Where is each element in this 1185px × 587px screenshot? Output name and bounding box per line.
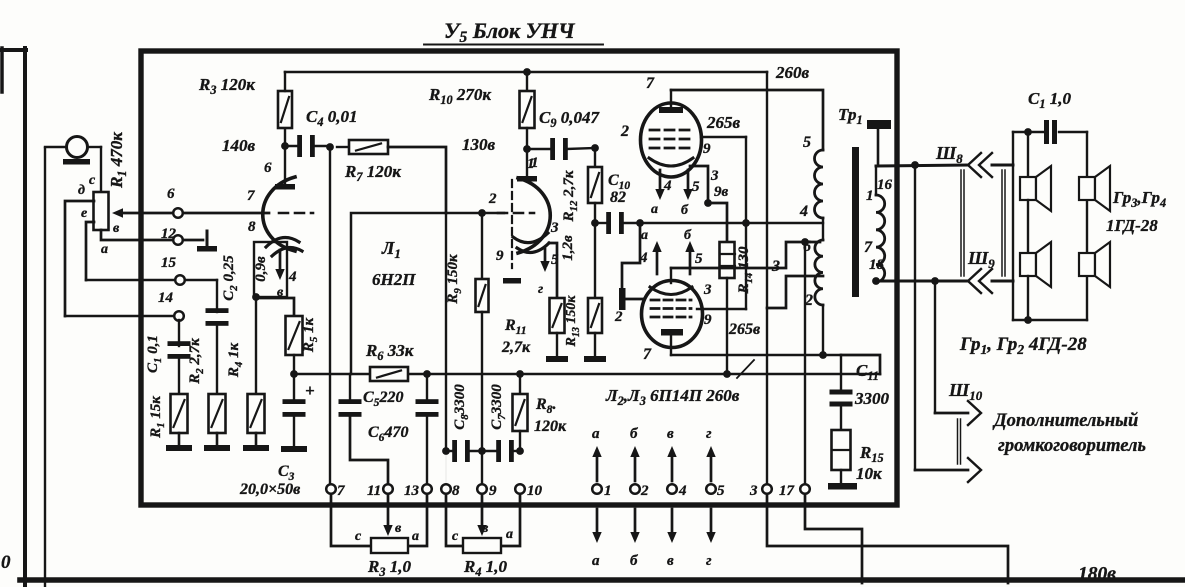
svg-text:4: 4 [663, 178, 672, 194]
svg-text:5: 5 [692, 179, 700, 195]
svg-text:1,2в: 1,2в [560, 235, 576, 261]
svg-text:5: 5 [803, 134, 811, 151]
svg-text:R1 470к: R1 470к [107, 132, 129, 189]
svg-text:е: е [81, 206, 87, 221]
svg-text:2: 2 [640, 483, 649, 499]
svg-text:2: 2 [620, 123, 629, 140]
svg-text:б: б [630, 553, 638, 569]
svg-text:С9 0,047: С9 0,047 [539, 108, 600, 130]
svg-text:д: д [78, 183, 85, 198]
svg-text:2: 2 [804, 292, 813, 309]
svg-text:R7 120к: R7 120к [344, 162, 401, 184]
svg-text:10: 10 [527, 483, 543, 499]
svg-text:10к: 10к [856, 464, 882, 483]
svg-text:а: а [412, 529, 419, 544]
svg-text:б: б [684, 228, 692, 243]
svg-text:130в: 130в [462, 135, 496, 154]
svg-text:б: б [681, 203, 689, 218]
svg-text:260в: 260в [775, 63, 810, 82]
svg-text:13: 13 [404, 483, 420, 499]
svg-text:14: 14 [158, 290, 174, 306]
svg-text:а: а [651, 202, 658, 217]
svg-text:2,7к: 2,7к [501, 339, 531, 356]
svg-text:4: 4 [639, 250, 648, 266]
svg-text:3: 3 [749, 483, 758, 499]
svg-text:а: а [101, 242, 108, 257]
svg-text:20,0×50в: 20,0×50в [239, 481, 300, 498]
svg-text:9в: 9в [714, 184, 729, 200]
svg-text:9: 9 [496, 248, 504, 264]
svg-text:3: 3 [771, 258, 780, 275]
svg-text:4: 4 [288, 269, 297, 285]
svg-text:6: 6 [167, 186, 175, 202]
svg-text:в: в [482, 521, 489, 536]
svg-text:а: а [592, 426, 600, 442]
svg-text:7: 7 [864, 239, 873, 256]
svg-text:г: г [538, 282, 543, 297]
svg-text:громкоговоритель: громкоговоритель [998, 436, 1146, 456]
svg-text:Гр3,Гр4: Гр3,Гр4 [1112, 188, 1166, 210]
svg-text:в: в [667, 426, 674, 442]
svg-text:в: в [277, 285, 284, 300]
svg-text:140в: 140в [222, 136, 256, 155]
svg-text:9: 9 [704, 312, 712, 328]
svg-text:265в: 265в [728, 321, 760, 338]
svg-text:R6 33к: R6 33к [365, 341, 414, 363]
svg-text:7: 7 [643, 346, 652, 363]
svg-text:С1 1,0: С1 1,0 [1028, 89, 1071, 111]
svg-text:в: в [395, 521, 402, 536]
svg-text:7: 7 [646, 75, 655, 92]
svg-text:7: 7 [337, 483, 345, 499]
svg-text:5: 5 [551, 252, 559, 268]
svg-text:Дополнительный: Дополнительный [992, 411, 1138, 431]
svg-text:17: 17 [779, 483, 795, 499]
svg-text:с: с [452, 529, 459, 544]
svg-text:а: а [592, 553, 600, 569]
svg-text:г: г [706, 426, 712, 442]
svg-text:в: в [113, 221, 120, 236]
svg-text:82: 82 [610, 189, 626, 206]
svg-text:г: г [706, 553, 712, 569]
svg-text:7: 7 [247, 188, 255, 204]
svg-text:180в: 180в [1078, 564, 1116, 585]
svg-text:R3 120к: R3 120к [198, 75, 255, 97]
svg-text:а: а [641, 228, 648, 243]
svg-text:0,9в: 0,9в [253, 256, 269, 282]
svg-text:3: 3 [710, 168, 719, 184]
svg-text:С4 0,01: С4 0,01 [306, 107, 357, 129]
svg-text:1: 1 [531, 155, 539, 171]
svg-text:4: 4 [678, 483, 687, 499]
svg-text:6Н2П: 6Н2П [372, 270, 416, 289]
svg-text:6: 6 [264, 160, 272, 176]
svg-text:5: 5 [717, 483, 725, 499]
svg-text:R3 1,0: R3 1,0 [367, 557, 411, 579]
svg-text:Л2,Л3 6П14П 260в: Л2,Л3 6П14П 260в [605, 386, 740, 408]
svg-text:9: 9 [489, 483, 497, 499]
svg-text:0: 0 [1, 552, 11, 573]
svg-text:3300: 3300 [854, 389, 890, 408]
svg-text:в: в [667, 553, 674, 569]
svg-text:8: 8 [452, 483, 460, 499]
svg-text:с: с [89, 173, 96, 188]
svg-text:с: с [355, 529, 362, 544]
svg-text:4: 4 [799, 203, 808, 220]
svg-text:11: 11 [367, 483, 381, 499]
svg-text:15: 15 [161, 255, 177, 271]
svg-text:5: 5 [695, 251, 703, 267]
svg-text:3: 3 [703, 282, 712, 298]
svg-text:2: 2 [488, 191, 497, 207]
svg-text:а: а [506, 527, 513, 542]
svg-text:2: 2 [614, 309, 623, 325]
svg-text:6: 6 [803, 238, 811, 255]
svg-text:8: 8 [248, 219, 256, 235]
svg-text:1: 1 [866, 188, 874, 204]
svg-text:12: 12 [161, 226, 177, 242]
svg-text:1ГД-28: 1ГД-28 [1106, 216, 1158, 235]
svg-text:R10 270к: R10 270к [428, 85, 491, 107]
svg-text:3: 3 [550, 220, 559, 236]
svg-text:18: 18 [869, 257, 885, 273]
svg-text:+: + [305, 381, 315, 400]
svg-text:1: 1 [604, 483, 612, 499]
svg-text:120к: 120к [534, 418, 567, 435]
svg-text:16: 16 [877, 177, 893, 193]
svg-text:R4 1,0: R4 1,0 [463, 557, 507, 579]
svg-text:б: б [630, 426, 638, 442]
svg-text:265в: 265в [706, 113, 741, 132]
svg-text:9: 9 [703, 141, 711, 157]
